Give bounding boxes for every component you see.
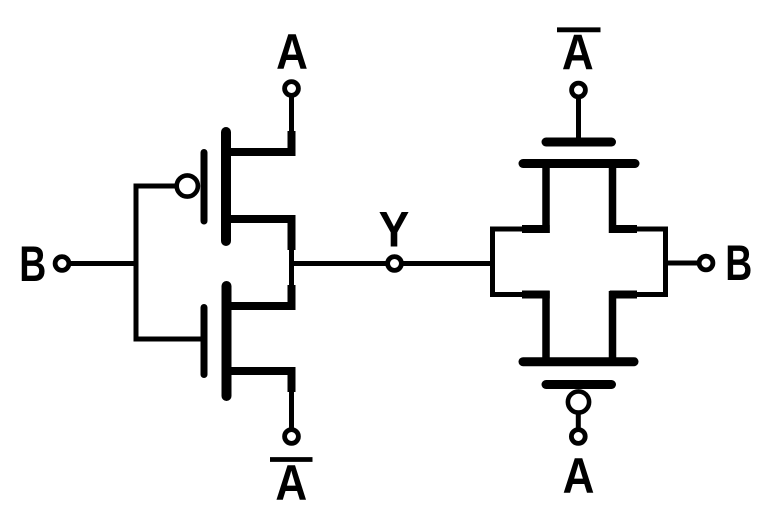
terminal A-bar (bottom-left open circle)	[285, 430, 299, 444]
transistor Q1 PMOS gate bubble	[177, 175, 198, 196]
transistor Q1 PMOS source stub	[288, 219, 296, 250]
wire Q3 left foot to left rail	[491, 227, 525, 232]
wire B input to gate column	[70, 261, 139, 266]
wire NMOS drain to output node	[289, 262, 294, 288]
terminal A (bottom-right open circle)	[571, 430, 585, 444]
wire gate column to PMOS bubble	[134, 184, 178, 189]
wire node Y to transmission gate	[403, 261, 495, 266]
transistor Q2 NMOS drain bar	[224, 302, 296, 310]
node A-bar overline (top-right)	[557, 27, 601, 32]
transistor Q4 right foot	[610, 291, 637, 299]
wire Q4 bubble to terminal A	[576, 413, 581, 429]
transistor Q3 NMOS gate plate (top of transmission gate)	[546, 138, 612, 147]
wire PMOS source to output node	[289, 248, 294, 266]
svg-text:A: A	[562, 25, 594, 81]
wire right rail of transmission gate	[663, 227, 668, 298]
wire NMOS source to terminal A-bar	[289, 390, 294, 428]
terminal B (right open circle)	[699, 256, 713, 270]
transistor Q2 NMOS source bar	[224, 367, 296, 375]
terminal A-bar (top-right open circle)	[572, 83, 586, 97]
wire output row left (to node Y)	[292, 261, 387, 266]
transistor Q3 left foot	[522, 225, 550, 233]
transistor Q1 PMOS gate plate	[201, 153, 208, 222]
wire Q4 right foot to right rail	[635, 292, 668, 297]
svg-text:B: B	[725, 235, 752, 291]
wire gate column (B to both gates)	[134, 184, 139, 342]
transistor Q4 PMOS gate plate	[546, 380, 612, 389]
transistor Q3 right foot	[610, 225, 637, 233]
transistor Q1 PMOS drain bar	[224, 148, 296, 156]
wire terminal A-bar to NMOS gate of transmission gate	[576, 97, 581, 141]
transistor Q2 NMOS gate plate	[201, 308, 208, 375]
transistor Q4 PMOS channel plate (bottom of transmission gate)	[523, 357, 634, 366]
svg-text:B: B	[19, 236, 46, 292]
svg-text:A: A	[563, 448, 595, 504]
svg-text:Y: Y	[379, 202, 410, 258]
node A-bar overline (bottom-left)	[270, 457, 313, 462]
wire Q3 right foot to right rail	[635, 227, 668, 232]
wire gate column to NMOS gate	[134, 337, 201, 342]
transistor Q2 NMOS source stub	[288, 371, 296, 392]
transistor Q1 PMOS source bar	[224, 215, 296, 223]
wire left rail of transmission gate	[490, 227, 495, 298]
wire terminal A to PMOS drain	[289, 96, 294, 133]
transistor Q4 left lead bar	[542, 291, 550, 362]
node Y (output open circle)	[388, 257, 402, 271]
svg-text:A: A	[276, 24, 308, 80]
transistor Q3 right lead bar	[609, 164, 617, 234]
transistor Q1 PMOS channel plate	[221, 132, 231, 241]
transistor Q4 PMOS gate bubble	[568, 391, 589, 412]
terminal B (left open circle)	[55, 257, 69, 271]
transistor Q4 right lead bar	[609, 291, 617, 362]
transistor Q4 left foot	[522, 291, 550, 299]
wire Q4 left foot to left rail	[491, 292, 525, 297]
transistor Q3 left lead bar	[542, 164, 550, 234]
transistor Q3 NMOS channel plate	[523, 159, 635, 168]
svg-text:A: A	[275, 455, 307, 511]
transistor Q2 NMOS channel plate	[222, 286, 232, 396]
transistor Q1 PMOS drain stub	[288, 131, 296, 156]
transistor Q2 NMOS drain stub	[288, 285, 296, 310]
wire right rail to terminal B	[666, 261, 700, 266]
terminal A (top-left open circle)	[285, 82, 299, 96]
